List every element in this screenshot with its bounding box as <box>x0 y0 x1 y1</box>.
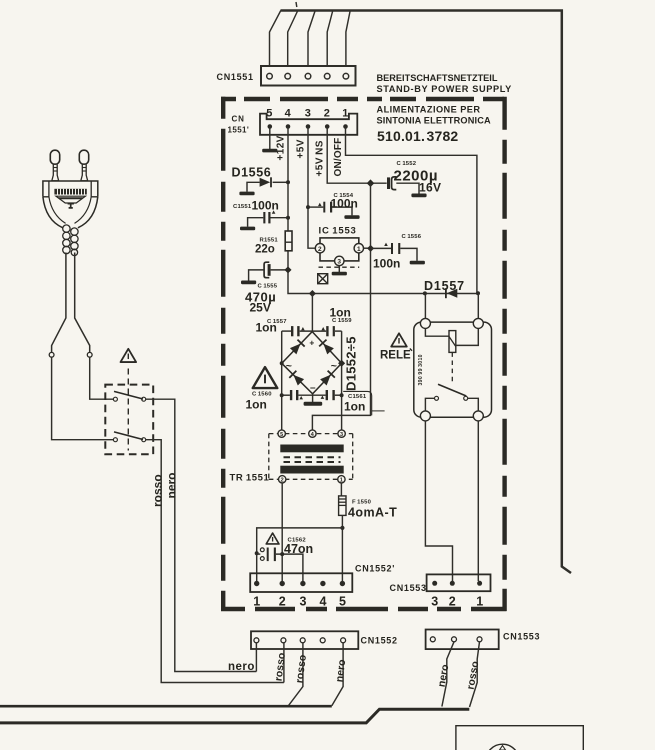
wire relay pin topleft up to rail <box>424 293 426 318</box>
svg-text:1: 1 <box>342 108 348 120</box>
wire TR pin1 down to fuse <box>340 483 342 496</box>
polarity mark C1556 <box>384 243 388 246</box>
capacitor C1562 plates <box>267 548 269 562</box>
bottom right box <box>456 726 583 750</box>
wire coil left lead <box>425 328 449 336</box>
transformer winding primary bar <box>280 445 343 453</box>
dashed separator under IC1553 <box>319 266 360 268</box>
svg-text:rosso: rosso <box>294 654 309 684</box>
svg-text:3: 3 <box>431 595 438 609</box>
svg-text:16V: 16V <box>419 181 441 195</box>
bottom right logo mark <box>500 746 506 750</box>
ground bridge minus <box>304 402 323 406</box>
node junction D1556 rail <box>286 180 290 184</box>
svg-text:TR 1551: TR 1551 <box>230 473 270 484</box>
ground C1552 <box>411 194 426 198</box>
capacitor C1556 plates <box>391 243 393 254</box>
svg-text:~: ~ <box>286 360 292 372</box>
wire rosso CN1552 pin2 <box>283 643 285 683</box>
mains plug strain relief coils left column <box>63 225 70 254</box>
polarity mark C1557 <box>301 327 305 330</box>
wire C1555 right to rail <box>271 269 288 271</box>
connector CN1552 body <box>251 631 358 649</box>
svg-text:1: 1 <box>476 595 483 609</box>
wire C1551 right to rail <box>271 217 289 219</box>
svg-text:22o: 22o <box>255 244 275 256</box>
wire +5V rail pin3 down to IC pin 2 <box>308 127 315 249</box>
mains cable right conductor <box>75 253 90 353</box>
ground C1556 <box>410 261 425 265</box>
mains plug prong right <box>79 150 88 164</box>
mains plug funnel inner left <box>49 197 66 224</box>
svg-text:+5V NS: +5V NS <box>315 140 326 176</box>
svg-text:2: 2 <box>279 595 286 609</box>
warning triangle relay <box>391 333 407 346</box>
svg-text:3: 3 <box>340 432 343 438</box>
wire +5V NS net pin2 down then right <box>327 127 387 184</box>
main dashed enclosure right edge <box>502 97 506 611</box>
node junction IC pin1 / C1556 <box>367 245 374 252</box>
polarity mark C1559 <box>321 327 325 330</box>
IC1553 pin 3 circle <box>335 256 344 265</box>
relay actuator dashed link <box>451 352 453 383</box>
warning triangle bridge <box>253 367 278 388</box>
svg-text:1551': 1551' <box>228 126 250 135</box>
mains plug body top bar <box>43 181 98 197</box>
capacitor C1557 plates <box>291 326 293 336</box>
node junction C1560 left <box>280 393 284 397</box>
wire C1556 left lead <box>371 247 391 249</box>
diode D1557 <box>445 288 457 298</box>
mains plug label recess dark top <box>57 197 85 199</box>
wire bridge right rail <box>341 331 343 430</box>
transformer TR1551 dashed frame <box>269 434 353 480</box>
svg-text:1: 1 <box>253 595 260 609</box>
bridge diode bottom-right <box>320 370 336 386</box>
wire relay bottom-left to CN1553' pin2 <box>425 421 452 581</box>
capacitor C1560 plates <box>290 390 292 400</box>
svg-text:~: ~ <box>331 360 337 372</box>
main dashed enclosure top edge <box>221 97 507 101</box>
mains plug strain relief coils right column <box>71 228 78 256</box>
wire bottom snubber mid segment <box>298 394 325 396</box>
resistor R1551 mid tick <box>285 241 292 243</box>
switch pole1 contact left <box>113 397 117 401</box>
fuse F1550 body <box>339 496 346 516</box>
connector CN1551' pin contacts <box>268 124 348 129</box>
svg-text:rosso: rosso <box>273 652 288 682</box>
wire CN1552 pin3 to bus <box>289 643 303 705</box>
svg-text:D1557: D1557 <box>424 279 465 293</box>
svg-text:D1556: D1556 <box>232 166 272 180</box>
svg-text:ON/OFF: ON/OFF <box>333 138 344 177</box>
svg-text:1: 1 <box>357 246 361 253</box>
mains plug prong stem rungs <box>53 168 86 172</box>
wire bottom snubber right segment <box>335 394 342 396</box>
svg-text:+: + <box>309 338 314 348</box>
svg-text:2: 2 <box>324 108 330 120</box>
wire C1556 right to ground <box>400 248 417 261</box>
capacitor C1552 curved plate <box>392 177 397 190</box>
svg-text:100n: 100n <box>373 257 400 271</box>
wire top snubber right segment <box>335 330 342 332</box>
svg-text:CN1553: CN1553 <box>390 583 427 593</box>
svg-text:5: 5 <box>339 595 346 609</box>
svg-text:BEREITSCHAFTSNETZTEIL: BEREITSCHAFTSNETZTEIL <box>377 73 498 83</box>
wire main feed line top-right frame <box>281 11 572 574</box>
relay pin bottom-left <box>420 411 430 421</box>
IC1553 pin 2 circle <box>315 244 324 253</box>
wire stub tick top <box>295 2 298 7</box>
bridge diode bottom-left <box>289 370 305 386</box>
label RELE accent <box>410 349 412 351</box>
relay coil diagonal <box>449 337 456 347</box>
relay coil <box>449 331 456 353</box>
op-amp IC1553 body <box>320 238 359 261</box>
terminal circle right <box>87 352 92 357</box>
svg-text:CN1552: CN1552 <box>361 636 398 646</box>
node junction C1554 <box>306 205 310 209</box>
capacitor C1555 bracket plate <box>264 262 269 278</box>
mains plug prong left stem <box>52 164 59 180</box>
wire C1562 right to CN1552' pin3 <box>276 554 303 581</box>
capacitor C1562 spark gap circles <box>260 548 264 552</box>
wire left terminal to switch pole2 <box>52 357 114 440</box>
capacitor C1561 plates <box>326 390 328 400</box>
ground C1554 <box>344 215 359 219</box>
svg-text:3: 3 <box>305 108 311 120</box>
connector CN1551 body <box>261 66 356 86</box>
wire CN1553 pin1 to bus <box>470 642 480 707</box>
wire top snubber mid segment <box>300 330 327 332</box>
crossed box mounting mark <box>318 274 328 284</box>
transformer winding secondary bar <box>280 466 343 474</box>
wire CN1551 pin2 lead <box>288 11 298 74</box>
frame around C1561 label <box>343 391 372 415</box>
relay pin bottom-right <box>473 411 483 421</box>
relay pin top-left <box>420 318 430 328</box>
connector CN1552' body <box>250 573 352 592</box>
main dashed enclosure left edge <box>221 97 225 611</box>
warning triangle C1562 <box>266 533 279 544</box>
svg-text:C 1552: C 1552 <box>397 161 417 167</box>
warning triangle switch <box>121 349 137 362</box>
wire CN1553 pin2 to bus <box>442 642 454 707</box>
node junction +5VNS / C1552 branch <box>367 179 375 187</box>
svg-text:2: 2 <box>449 595 456 609</box>
transformer pin 4 <box>309 430 316 437</box>
wire IC1553 pin1 to node <box>364 247 371 249</box>
ground C1551 <box>240 227 255 231</box>
fuse F1550 hatch <box>339 499 346 505</box>
svg-text:25V: 25V <box>250 301 271 315</box>
polarity mark C1554 <box>318 203 322 206</box>
polarity mark C1561 <box>321 396 325 399</box>
switch pole2 contact left <box>113 438 117 442</box>
ground pin5 <box>262 149 277 153</box>
ground C1555 <box>241 281 256 285</box>
wire C1555 left to ground <box>249 270 265 281</box>
node junction bridge right top <box>338 360 345 367</box>
wire relay contact left lead <box>425 398 434 411</box>
node junction fuse net <box>340 526 344 530</box>
wire right terminal to switch pole1 <box>90 357 114 399</box>
bridge diode top-right <box>319 339 335 355</box>
wire ON/OFF net pin1 down right and down to relay <box>346 127 477 294</box>
svg-text:100n: 100n <box>331 197 358 211</box>
mains plug funnel outer left <box>43 197 63 228</box>
svg-text:390 99 3010: 390 99 3010 <box>418 354 424 385</box>
transformer core dashed lines <box>284 456 341 458</box>
wire top snubber left segment <box>282 330 291 332</box>
svg-text:+5V: +5V <box>296 139 307 158</box>
svg-text:2: 2 <box>318 246 322 253</box>
svg-text:nero: nero <box>334 659 349 683</box>
node junction C1562 left <box>255 551 259 555</box>
wire bottom snubber left segment <box>282 394 290 396</box>
switch dashed actuator link <box>127 369 129 451</box>
svg-text:ALIMENTAZIONE PER: ALIMENTAZIONE PER <box>377 105 481 115</box>
svg-text:3: 3 <box>300 595 307 609</box>
bus wire upper nero <box>0 705 332 708</box>
bus wire lower stepped <box>0 709 469 723</box>
svg-text:C1551: C1551 <box>233 204 252 210</box>
svg-text:SINTONIA ELETTRONICA: SINTONIA ELETTRONICA <box>377 116 491 126</box>
wire C1552 to ground <box>396 183 419 194</box>
relay pin top-right <box>473 318 483 328</box>
svg-text:1: 1 <box>340 478 343 484</box>
connector CN1552 pin holes <box>254 638 346 643</box>
bridge diode top-left <box>290 339 306 355</box>
connector CN1551' body <box>260 114 357 135</box>
capacitor C1559 plates <box>326 326 328 336</box>
wire bridge minus to ground <box>312 394 314 402</box>
svg-text:RELE: RELE <box>380 350 411 362</box>
relay contact right <box>464 396 468 400</box>
transformer pin 2 <box>279 476 286 483</box>
mains plug T mark <box>68 204 74 208</box>
svg-text:4: 4 <box>320 595 327 609</box>
wire fuse down to CN1552' pin5 <box>341 515 343 581</box>
mains plug prong right stem <box>81 164 88 180</box>
polarity mark C1551 <box>272 210 276 213</box>
wire nero from switch pole1 to CN1552 pin1 <box>146 399 257 671</box>
svg-text:D1552÷5: D1552÷5 <box>344 336 359 391</box>
svg-text:4: 4 <box>285 108 292 120</box>
svg-text:3: 3 <box>337 259 341 266</box>
wire rosso from switch pole2 to CN1552 pin2 <box>146 440 284 683</box>
wire CN1551 pin4 lead <box>327 11 333 74</box>
wire IC1553 pin3 to ground <box>338 266 340 272</box>
capacitor C1552 plus plate <box>387 177 390 189</box>
wire relay bottom-right to CN1553' pin1 <box>477 421 479 581</box>
connector CN1553 body <box>426 630 499 650</box>
svg-text:4omA-T: 4omA-T <box>348 506 397 520</box>
svg-text:2: 2 <box>281 478 284 484</box>
mains cable left conductor <box>52 253 66 353</box>
wire coil right lead <box>456 328 479 345</box>
connector CN1553' contacts <box>432 581 482 586</box>
switch pole2 arm <box>114 432 143 440</box>
polarity mark C1560 <box>299 396 303 399</box>
wire C1562 left stub <box>257 553 261 555</box>
wire relay pin topright up to rail <box>477 293 479 318</box>
transformer pin 1 <box>338 476 345 483</box>
switch pole1 contact right <box>142 397 146 401</box>
terminal circle left <box>49 352 54 357</box>
svg-text:100n: 100n <box>252 199 279 213</box>
node junction C1555 rail <box>284 266 291 273</box>
switch pole1 arm <box>114 391 143 399</box>
connector CN1553' body <box>427 574 491 591</box>
capacitor C1555 solid plate <box>268 264 271 276</box>
main dashed enclosure bottom edge <box>221 607 507 611</box>
mains plug funnel outer right <box>78 197 98 228</box>
capacitor C1554 plates <box>323 202 325 213</box>
svg-text:1on: 1on <box>246 398 267 412</box>
svg-text:CN1552': CN1552' <box>355 564 395 574</box>
relay switch arm <box>438 384 466 396</box>
svg-text:IC 1553: IC 1553 <box>319 226 357 237</box>
node junction relay coil left <box>423 291 427 295</box>
node junction rail / bridge plus <box>309 290 316 297</box>
svg-text:rosso: rosso <box>151 474 165 507</box>
svg-text:CN1553: CN1553 <box>503 632 540 642</box>
wire CN1551 pin1 lead <box>270 11 281 74</box>
capacitor C1551 plates <box>263 212 265 223</box>
wire pin5 to ground <box>269 127 271 150</box>
wire TR pin2 down to CN1552' pin2 <box>281 483 283 581</box>
wire CN1551 pin5 lead <box>346 11 350 74</box>
connector CN1551 pin holes <box>267 73 349 79</box>
wire vertical net from C1552 junction down to TR pin4 <box>312 183 370 430</box>
mains plug label recess trapezoid <box>56 196 85 203</box>
node junction bridge left top <box>280 361 284 365</box>
transformer pin 3 <box>338 430 345 437</box>
ground IC1553 <box>332 272 347 276</box>
wire bridge plus lead up to rail <box>311 294 313 332</box>
svg-text:CN: CN <box>232 115 245 124</box>
svg-text:CN1551: CN1551 <box>217 72 254 82</box>
svg-text:1on: 1on <box>344 400 365 414</box>
relay contact left <box>435 396 439 400</box>
IC1553 pin 1 circle <box>354 244 363 253</box>
svg-text:5: 5 <box>280 432 283 438</box>
svg-text:C 1556: C 1556 <box>402 234 422 240</box>
mains plug body right ear <box>91 181 98 197</box>
wire +12V rail pin4 down <box>287 127 289 232</box>
wire nero CN1552 pin1 <box>255 643 257 672</box>
mains plug prong left <box>50 150 59 164</box>
wire D1556 cathode to rail <box>273 181 288 183</box>
relay K body <box>414 322 492 417</box>
label stub line right of frame <box>372 410 385 412</box>
switch dashed box <box>105 385 153 455</box>
wire C1551 left to ground <box>248 218 264 227</box>
node junction C1551 rail <box>286 216 290 220</box>
wire CN1552 pin5 to bus <box>332 643 343 706</box>
node junction C1561 right <box>340 393 344 397</box>
svg-text:rosso: rosso <box>465 660 482 690</box>
svg-text:nero: nero <box>436 664 452 689</box>
wire relay contact right lead <box>468 398 479 411</box>
mains plug hatched band <box>54 189 86 195</box>
svg-text:–: – <box>310 383 316 394</box>
svg-text:1on: 1on <box>256 321 277 335</box>
transformer pin 5 <box>278 430 285 437</box>
mains plug funnel inner right <box>75 197 92 224</box>
svg-text:nero: nero <box>165 472 179 498</box>
wire +12V rail lower <box>288 251 478 294</box>
switch pole2 contact right <box>142 438 146 442</box>
wire bridge left rail <box>281 331 283 430</box>
wire C1562 net top horizontal <box>257 528 343 581</box>
diode D1556 <box>260 177 272 187</box>
wire D1556 anode stub to ground <box>247 182 260 192</box>
svg-text:510.01. 3782: 510.01. 3782 <box>377 128 458 144</box>
node junction relay coil right / ON OFF <box>476 291 480 295</box>
wire CN1551 pin3 lead <box>308 11 315 74</box>
resistor R1551 <box>285 231 292 251</box>
connector CN1552' contacts <box>254 581 345 586</box>
svg-text:47on: 47on <box>284 542 313 556</box>
rectifier bridge D1552-5 diamond <box>282 332 342 394</box>
svg-text:C 1559: C 1559 <box>332 318 352 324</box>
bottom right logo circle <box>486 744 520 750</box>
ground D1556 <box>239 192 254 196</box>
connector CN1553 pin holes <box>430 637 482 642</box>
svg-text:5: 5 <box>266 108 272 120</box>
wire C1554 right to ground <box>332 207 352 215</box>
mains plug body left ear <box>43 181 49 197</box>
node junction C1562 pin2 net <box>280 552 284 556</box>
svg-text:STAND-BY POWER SUPPLY: STAND-BY POWER SUPPLY <box>377 84 512 94</box>
wire C1554 left lead <box>308 206 323 208</box>
svg-text:+12V: +12V <box>276 135 287 160</box>
